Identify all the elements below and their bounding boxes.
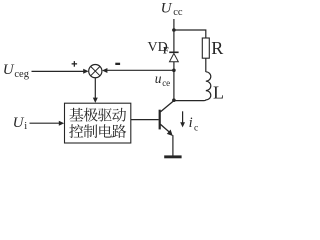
arrowhead: minus input into summing junction (102, 68, 107, 73)
resistor R body (202, 38, 209, 58)
wire: resistor bottom lead down to inductor (205, 58, 207, 72)
wire: top branch right to resistor (174, 30, 206, 38)
svg-text:i: i (189, 115, 193, 131)
svg-text:c: c (194, 124, 198, 134)
transistor Q base bar (159, 110, 161, 130)
svg-text:R: R (211, 38, 223, 58)
arrowhead: plus input into summing junction (83, 69, 88, 74)
wire: summing junction output down into control box (94, 78, 96, 99)
wire: diode anode down through uce node to collector node (173, 62, 175, 100)
minus sign (115, 63, 120, 65)
summing junction circle (89, 65, 102, 78)
wire: uce node left toward summing junction (minus input) (105, 69, 174, 71)
summing junction X (91, 66, 100, 75)
inductor L coil (3 bumps) and bottom lead to collector node (174, 72, 211, 101)
ground bar (164, 155, 181, 158)
svg-text:i: i (24, 121, 27, 132)
svg-text:ce: ce (162, 78, 170, 88)
plus sign (72, 63, 78, 64)
node: junction dot at uce tap (172, 69, 176, 73)
svg-text:cc: cc (173, 7, 183, 18)
svg-text:U: U (3, 62, 15, 78)
control box (65, 103, 131, 143)
box text line 1: 基极驱动 (69, 108, 126, 122)
svg-text:U: U (13, 115, 25, 131)
svg-text:u: u (155, 71, 162, 86)
node: junction dot at collector (172, 98, 176, 102)
svg-text:L: L (213, 82, 224, 102)
svg-text:U: U (161, 1, 173, 17)
svg-text:F: F (163, 46, 169, 56)
transistor emitter arrowhead (167, 130, 173, 137)
node: junction dot at Ucc branch (172, 28, 176, 32)
diode VDF cathode bar (169, 51, 178, 53)
ic current arrow (182, 111, 184, 123)
diode VDF triangle (170, 53, 179, 61)
wire: Ucc lead down to top junction (173, 19, 175, 30)
svg-text:ceg: ceg (14, 69, 29, 80)
wire: Ui arrow line into control box (30, 122, 60, 124)
box text line 2: 控制电路 (69, 124, 126, 138)
transistor collector line (160, 100, 174, 112)
wire: control box output to transistor base (131, 119, 159, 121)
transistor emitter line (160, 124, 170, 133)
wire: trunk from top junction down to diode cathode bar (173, 30, 175, 52)
arrowhead: Ui into box (59, 121, 64, 126)
arrowhead: summing output into box (93, 98, 98, 103)
wire: emitter lead down to ground (172, 135, 174, 155)
wire: Uceg line into summing junction (plus input) (32, 70, 85, 72)
